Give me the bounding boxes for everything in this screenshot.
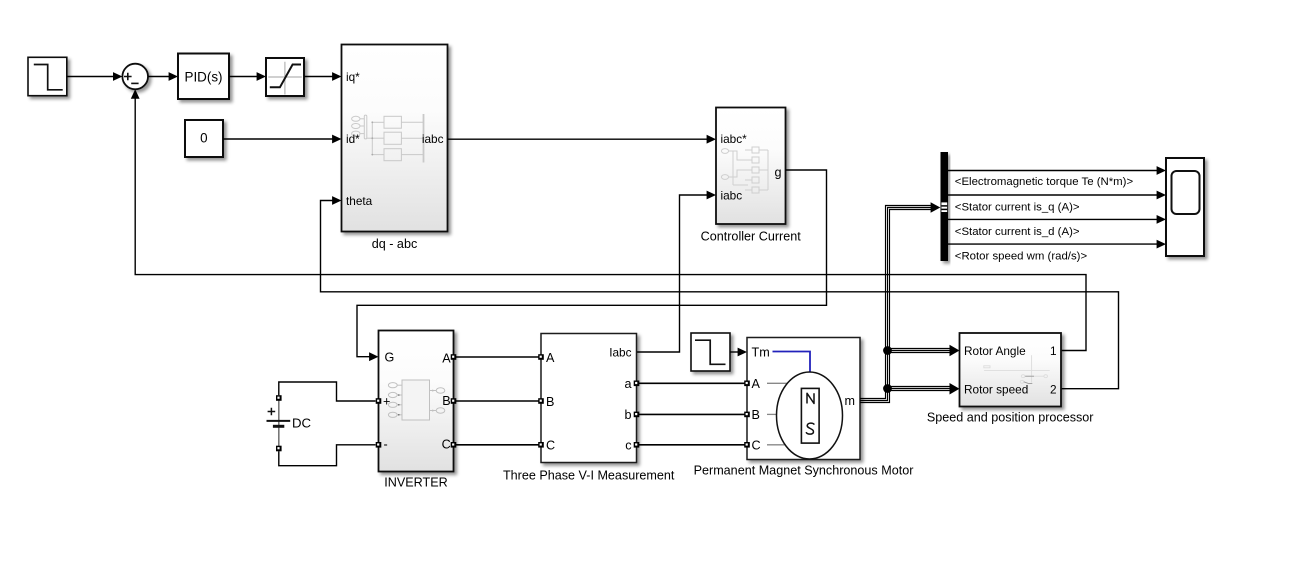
svg-text:c: c — [625, 439, 631, 453]
svg-text:B: B — [442, 394, 450, 408]
wire V-I c to Motor C — [637, 444, 748, 446]
wire INVERTER A to V-I A — [454, 356, 542, 358]
port pad V-I A — [538, 354, 544, 360]
bus selector bar — [941, 152, 949, 261]
svg-text:Rotor Angle: Rotor Angle — [964, 344, 1026, 358]
Permanent Magnet Synchronous Motor block — [694, 338, 914, 478]
port pad V-I a — [634, 381, 640, 387]
svg-text:Iabc: Iabc — [609, 346, 631, 360]
wire Controller g to INVERTER G — [357, 170, 827, 361]
port pad INVERTER C — [451, 442, 457, 448]
scope block — [1166, 158, 1204, 256]
wire V-I Iabc to Controller iabc — [637, 191, 717, 352]
svg-text:Permanent Magnet Synchronous M: Permanent Magnet Synchronous Motor — [694, 464, 914, 478]
saturation block — [266, 58, 304, 96]
signal wire is_q to Scope — [948, 191, 1166, 200]
feedback wire rotor angle to Sum — [131, 89, 1086, 350]
svg-text:Tm: Tm — [752, 346, 770, 360]
svg-text:PID(s): PID(s) — [185, 70, 223, 85]
port pad INVERTER B — [451, 398, 457, 404]
wire INVERTER C to V-I C — [454, 444, 542, 446]
port pad INVERTER A — [451, 354, 457, 360]
bus junction dot lower — [883, 384, 892, 393]
svg-text:C: C — [442, 438, 451, 452]
wire PID to Saturation — [229, 72, 266, 81]
svg-text:C: C — [752, 439, 761, 453]
svg-text:b: b — [624, 408, 631, 422]
svg-text:g: g — [774, 166, 781, 180]
svg-text:m: m — [845, 394, 856, 408]
bus branch to Rotor Angle — [886, 349, 951, 353]
port pad Motor B — [744, 412, 750, 418]
PID controller block PID(s) — [178, 54, 229, 100]
wire DC plus to INVERTER plus — [279, 382, 376, 401]
svg-text:1: 1 — [1050, 344, 1057, 358]
svg-text:A: A — [442, 352, 451, 366]
sum junction Sum — [122, 64, 148, 90]
port pad INVERTER plus — [376, 398, 382, 404]
subsystem Speed and position processor — [927, 333, 1094, 425]
svg-text:<Stator current is_q (A)>: <Stator current is_q (A)> — [955, 201, 1080, 213]
bus arrow into Rotor Angle — [950, 345, 960, 357]
feedback wire rotor speed to dq-abc theta — [321, 196, 1119, 389]
svg-text:A: A — [546, 351, 555, 365]
bus wire Motor m up to Bus Selector — [860, 206, 932, 403]
step source Step1 — [28, 57, 67, 95]
svg-text:DC: DC — [292, 416, 312, 431]
DC voltage source — [267, 395, 312, 451]
svg-text:dq - abc: dq - abc — [372, 237, 418, 251]
svg-text:-: - — [384, 438, 388, 452]
svg-text:Speed and position processor: Speed and position processor — [927, 411, 1094, 425]
svg-text:id*: id* — [346, 132, 360, 146]
subsystem Controller Current — [701, 108, 802, 244]
wire dq-abc iabc to Controller Current iabc* — [448, 135, 717, 144]
port pad V-I B — [538, 398, 544, 404]
port pad Motor A — [744, 381, 750, 387]
wire DC minus to INVERTER minus — [279, 445, 376, 466]
wire Sum to PID — [148, 72, 178, 81]
svg-text:Three Phase V-I Measurement: Three Phase V-I Measurement — [503, 469, 675, 483]
signal wire is_d to Scope — [948, 215, 1166, 224]
svg-text:iabc: iabc — [721, 189, 743, 203]
subsystem INVERTER — [379, 331, 454, 490]
svg-text:iabc*: iabc* — [721, 132, 748, 146]
svg-text:<Rotor speed wm (rad/s)>: <Rotor speed wm (rad/s)> — [955, 251, 1088, 263]
svg-text:B: B — [546, 395, 554, 409]
bus arrow into Rotor speed — [950, 383, 960, 395]
svg-text:A: A — [752, 377, 761, 391]
svg-text:+: + — [383, 395, 390, 409]
svg-text:Controller Current: Controller Current — [701, 230, 802, 244]
port pad Motor C — [744, 442, 750, 448]
port pad INVERTER minus — [376, 442, 382, 448]
port pad V-I C — [538, 442, 544, 448]
svg-text:<Electromagnetic torque Te (N*: <Electromagnetic torque Te (N*m)> — [955, 176, 1134, 188]
wire INVERTER B to V-I B — [454, 400, 542, 402]
subsystem Three Phase V-I Measurement — [503, 334, 675, 483]
wire V-I a to Motor A — [637, 382, 748, 384]
constant block 0 — [185, 120, 223, 157]
bus branch to Rotor speed — [886, 387, 951, 391]
svg-text:0: 0 — [200, 130, 207, 145]
bus arrow into Bus Selector — [931, 202, 941, 212]
port pad V-I c — [634, 442, 640, 448]
wire V-I b to Motor B — [637, 413, 748, 415]
wire Tm step to Motor Tm — [730, 348, 747, 357]
signal wire rotor speed to Scope — [948, 240, 1166, 249]
svg-text:2: 2 — [1050, 383, 1057, 397]
svg-text:Rotor speed: Rotor speed — [964, 383, 1028, 397]
svg-text:iabc: iabc — [422, 132, 444, 146]
svg-text:theta: theta — [346, 194, 373, 208]
svg-text:C: C — [546, 439, 555, 453]
wire Step1 to Sum — [67, 72, 123, 81]
subsystem dq - abc — [342, 45, 448, 252]
wire Constant to dq-abc id* — [223, 135, 342, 144]
svg-text:iq*: iq* — [346, 70, 360, 84]
svg-text:G: G — [385, 351, 395, 365]
svg-text:a: a — [624, 377, 631, 391]
svg-text:B: B — [752, 408, 760, 422]
port pad V-I b — [634, 412, 640, 418]
bus junction dot upper — [883, 346, 892, 355]
signal wire torque to Scope — [948, 166, 1166, 175]
step source Tm step — [691, 333, 730, 371]
svg-text:INVERTER: INVERTER — [384, 476, 447, 490]
wire Saturation to dq-abc iq* — [304, 72, 342, 81]
svg-text:<Stator current is_d (A)>: <Stator current is_d (A)> — [955, 226, 1080, 238]
